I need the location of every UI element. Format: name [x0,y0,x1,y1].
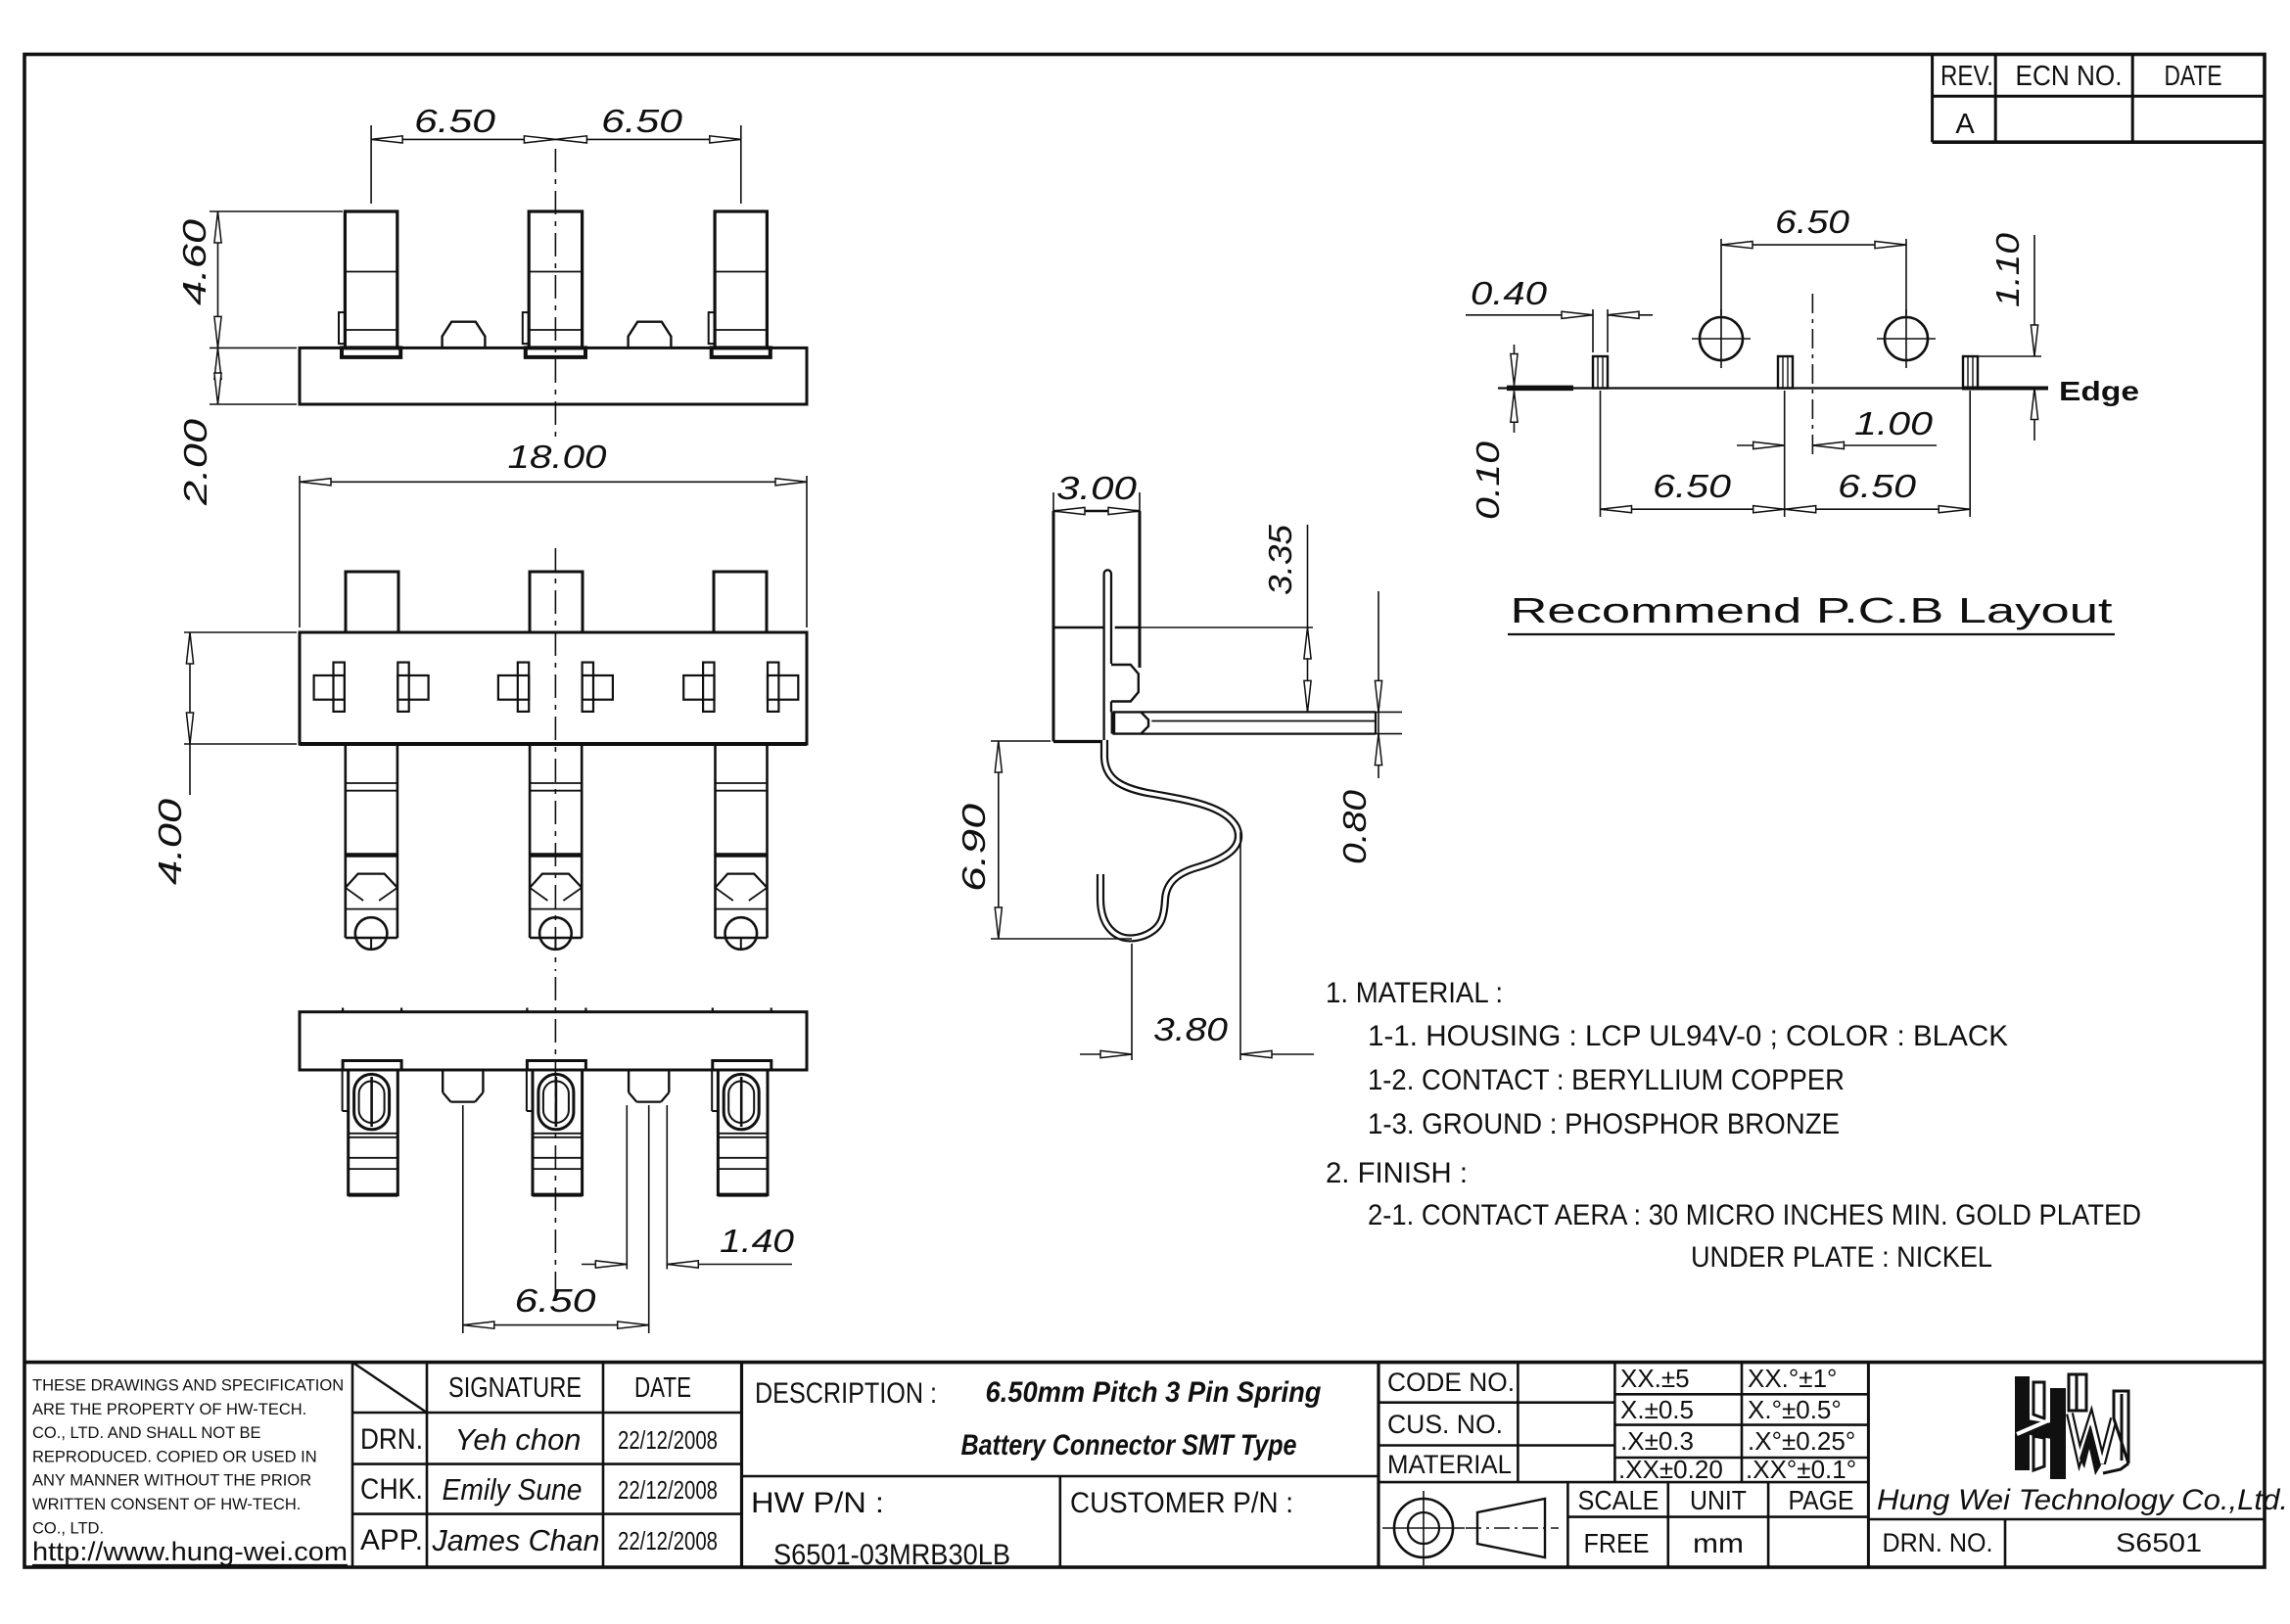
svg-text:6.50: 6.50 [1838,468,1917,504]
svg-text:CUSTOMER P/N :: CUSTOMER P/N : [1070,1487,1293,1519]
pcb layout pad 2 [1778,356,1793,389]
svg-text:ANY MANNER WITHOUT THE PRI: ANY MANNER WITHOUT THE PRIOR [32,1472,311,1490]
dimension 6.90 spring height [991,740,1051,742]
side view housing outline [1052,511,1055,742]
dimension 6.50 pad pitch right [1785,508,1971,510]
revision table [1931,55,1934,143]
svg-text:22/12/2008: 22/12/2008 [618,1475,718,1505]
front view contact pin 1 [345,211,397,348]
svg-text:CO., LTD. AND SHALL NOT B: CO., LTD. AND SHALL NOT BE [32,1424,261,1442]
pcb edge line [1498,387,2048,389]
svg-text:3.35: 3.35 [1262,524,1298,595]
svg-text:1-2. CONTACT : BERYLLIUM C: 1-2. CONTACT : BERYLLIUM COPPER [1368,1064,1845,1096]
top view lower contact 1 [344,744,347,938]
svg-text:CHK.: CHK. [360,1473,423,1506]
pcb layout pad 1 [1593,356,1608,389]
svg-text:1. MATERIAL :: 1. MATERIAL : [1326,977,1503,1009]
bottom view contact 2 [526,1008,528,1012]
svg-text:mm: mm [1693,1528,1744,1558]
dimension 6.50 hole pitch [1720,239,1722,315]
dimension 6.50 boss pitch (bottom view) [462,1105,464,1333]
side view ground spring [1100,740,1238,938]
svg-text:Edge: Edge [2059,376,2139,406]
svg-text:DRN. NO.: DRN. NO. [1883,1528,1993,1557]
svg-text:CUS. NO.: CUS. NO. [1387,1410,1503,1439]
svg-text:6.50: 6.50 [1775,204,1850,240]
top view lower contact 2 [529,744,532,938]
dimension 6.50 pin pitch left (front view) [370,125,372,204]
svg-text:UNIT: UNIT [1690,1485,1747,1515]
front view plastic boss 2 [629,322,672,348]
front view plastic boss 1 [443,322,486,348]
dimension 1.40 boss width [626,1105,628,1270]
svg-text:22/12/2008: 22/12/2008 [618,1425,718,1455]
bottom view housing plate [300,1012,807,1070]
svg-text:0.80: 0.80 [1336,789,1373,864]
svg-text:18.00: 18.00 [508,439,608,475]
pcb layout hole right [1885,317,1928,360]
svg-text:REPRODUCED. COPIED OR USED: REPRODUCED. COPIED OR USED IN [32,1448,317,1465]
top view pin tab 3 [714,572,767,632]
bottom view contact 1 [342,1008,344,1012]
title block diagonal [352,1363,427,1413]
dimension 6.50 pad pitch left [1600,391,1602,517]
svg-text:APP.: APP. [360,1524,423,1556]
svg-text:THESE DRAWINGS AND SPECIFIC: THESE DRAWINGS AND SPECIFICATION [32,1377,344,1395]
side view solder tail [1114,712,1148,733]
svg-text:22/12/2008: 22/12/2008 [618,1526,718,1555]
svg-text:Hung Wei Technology Co.,Ltd: Hung Wei Technology Co.,Ltd. [1877,1484,2288,1516]
svg-text:2.00: 2.00 [177,418,213,506]
svg-text:.X±0.3: .X±0.3 [1620,1426,1694,1456]
svg-text:S6501-03MRB30LB: S6501-03MRB30LB [773,1539,1010,1571]
svg-text:6.50: 6.50 [601,103,683,139]
pcb layout hole left [1700,317,1743,360]
svg-text:Recommend P.C.B Layout: Recommend P.C.B Layout [1511,590,2113,630]
company logo HW [2015,1374,2086,1479]
svg-text:FREE: FREE [1584,1528,1650,1558]
svg-text:3.80: 3.80 [1153,1011,1229,1047]
dimension 18.00 housing width [299,476,301,627]
svg-text:6.50: 6.50 [1653,468,1732,504]
side view pin slot [1104,570,1111,741]
dimension 3.00 housing depth (side view) [1052,492,1054,511]
bottom view boss 2 [628,1070,630,1092]
dimension 1.10 pad height [1978,355,2041,357]
svg-text:DATE: DATE [634,1372,691,1404]
title block frame [24,1361,2265,1365]
svg-text:6.50mm Pitch 3 Pin Spring: 6.50mm Pitch 3 Pin Spring [986,1376,1322,1409]
svg-text:1-3. GROUND : PHOSPHOR BRO: 1-3. GROUND : PHOSPHOR BRONZE [1368,1108,1840,1140]
front view center line [554,149,556,442]
svg-text:1.40: 1.40 [720,1223,795,1259]
svg-text:ECN NO.: ECN NO. [2016,61,2123,92]
top view pin tab 2 [530,572,583,632]
svg-text:SIGNATURE: SIGNATURE [448,1372,582,1404]
svg-text:XX.±5: XX.±5 [1620,1364,1690,1393]
top view solder-slot marks pin 1 [314,675,345,700]
dimension 0.80 tail thickness [1376,711,1402,713]
svg-text:CO., LTD.: CO., LTD. [32,1519,104,1537]
dimension 0.40 pad width [1592,309,1594,352]
svg-text:CODE NO.: CODE NO. [1387,1368,1515,1397]
front view contact pin 3 [715,211,767,348]
svg-text:http://www.hung-wei.com: http://www.hung-wei.com [32,1537,348,1566]
svg-text:X.°±0.5°: X.°±0.5° [1748,1395,1842,1424]
svg-text:Battery Connector SMT Type: Battery Connector SMT Type [961,1429,1297,1462]
dimension 3.35 tail height [1140,626,1313,628]
dimension 3.80 spring width [1131,944,1133,1060]
svg-text:4.00: 4.00 [152,798,188,885]
svg-text:6.50: 6.50 [515,1282,597,1319]
side view contact dimple [1111,665,1139,702]
svg-text:3.00: 3.00 [1056,470,1138,506]
pcb layout pad 3 [1963,356,1978,389]
svg-text:2. FINISH :: 2. FINISH : [1326,1157,1468,1189]
svg-text:0.10: 0.10 [1470,441,1506,520]
dimension 4.00 housing depth [184,631,297,633]
bottom view center line [554,977,556,1294]
svg-text:Yeh chon: Yeh chon [455,1422,582,1457]
svg-text:.XX±0.20: .XX±0.20 [1618,1455,1723,1484]
third angle projection symbol [1394,1499,1453,1557]
bottom view boss 1 [442,1070,444,1092]
svg-text:SCALE: SCALE [1578,1485,1659,1515]
top view housing outline [300,632,807,744]
svg-text:DRN.: DRN. [360,1423,423,1456]
projection cone symbol [1477,1499,1545,1557]
svg-text:DESCRIPTION :: DESCRIPTION : [755,1377,937,1410]
svg-text:DATE: DATE [2165,61,2222,92]
top view pin tab 1 [346,572,398,632]
svg-text:6.90: 6.90 [956,803,992,892]
top view solder-slot marks pin 3 [683,675,714,700]
svg-text:S6501: S6501 [2116,1528,2202,1557]
svg-text:James Chan: James Chan [432,1523,600,1557]
svg-text:Emily Sune: Emily Sune [443,1472,583,1507]
dimension 0.10 edge offset [1514,345,1516,386]
top view lower contact 3 [714,744,717,938]
svg-text:0.40: 0.40 [1471,275,1548,311]
svg-text:.X°±0.25°: .X°±0.25° [1748,1426,1855,1456]
svg-text:1-1. HOUSING : LCP UL94V-0: 1-1. HOUSING : LCP UL94V-0 ; COLOR : BLA… [1368,1020,2008,1052]
svg-text:MATERIAL: MATERIAL [1387,1450,1512,1479]
svg-text:ARE THE PROPERTY OF HW-TEC: ARE THE PROPERTY OF HW-TECH. [32,1401,306,1418]
svg-text:HW P/N :: HW P/N : [751,1487,884,1519]
svg-text:XX.°±1°: XX.°±1° [1748,1364,1837,1393]
svg-text:UNDER PLATE : NICKEL: UNDER PLATE : NICKEL [1691,1241,1992,1274]
svg-text:4.60: 4.60 [176,218,212,305]
svg-text:WRITTEN CONSENT OF HW-TECH.: WRITTEN CONSENT OF HW-TECH. [32,1496,301,1513]
dimension 4.60 pin height [210,210,343,212]
top view center line [554,548,556,971]
svg-text:1.10: 1.10 [1989,232,2026,307]
svg-text:REV.: REV. [1940,61,1993,92]
bottom view contact 3 [712,1008,714,1012]
svg-text:.XX°±0.1°: .XX°±0.1° [1746,1455,1856,1484]
dimension 1.00 center offset [1737,444,1785,446]
svg-text:6.50: 6.50 [414,103,496,139]
pcb layout center line [1811,294,1813,460]
top view solder-slot marks pin 2 [498,675,529,700]
svg-text:X.±0.5: X.±0.5 [1620,1395,1694,1424]
svg-text:PAGE: PAGE [1789,1485,1854,1515]
svg-text:A: A [1955,109,1975,140]
front view housing body [300,348,807,404]
svg-text:2-1. CONTACT AERA : 30 MI: 2-1. CONTACT AERA : 30 MICRO INCHES MIN.… [1368,1199,2141,1231]
front view contact pin 2 [529,211,582,348]
svg-text:1.00: 1.00 [1854,405,1934,441]
